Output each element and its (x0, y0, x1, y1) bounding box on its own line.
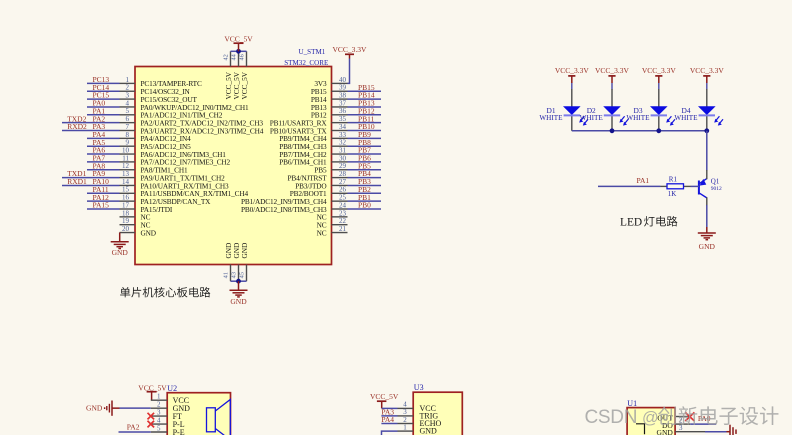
wire LED cathode bus (572, 130, 707, 132)
label D4 (674, 106, 698, 122)
node PA0 label (93, 99, 106, 108)
svg-text:PB0: PB0 (358, 201, 371, 210)
svg-text:NC: NC (317, 228, 327, 237)
svg-text:GND: GND (420, 427, 438, 435)
pin 36 PB12 (311, 107, 348, 119)
no-connect X (U2) (148, 413, 155, 420)
node PB13 label (358, 99, 375, 108)
power VCC_3.3V (LED D1) (555, 66, 590, 83)
wire PA4 to U3 ECHO (381, 423, 397, 425)
wire R1 to Q1 base (691, 185, 699, 187)
wire net PA8 (87, 169, 120, 171)
pin 30 PB6/TIM4_CH1 (279, 154, 347, 166)
svg-text:41: 41 (223, 272, 230, 278)
wire net PB14 (348, 98, 382, 100)
wire net PB13 (348, 106, 382, 108)
svg-text:RXD1: RXD1 (67, 177, 87, 186)
node PA3 label (67, 122, 105, 131)
node PC15 label (93, 91, 110, 100)
node PB10 label (358, 122, 375, 131)
svg-text:31: 31 (339, 146, 347, 154)
svg-text:4: 4 (157, 416, 161, 424)
node PB3 label (358, 177, 371, 186)
pin 16 PA12/USBDP/CAN_TX (120, 194, 212, 206)
pin 21 NC (317, 225, 348, 237)
node PA10 label (67, 177, 109, 186)
wire net PB2 (348, 192, 382, 194)
ground (U2 pin2, sideways) (86, 401, 119, 416)
svg-text:GND: GND (657, 428, 674, 435)
svg-text:R1: R1 (669, 175, 678, 183)
pin 19 NC (120, 217, 151, 229)
svg-text:@: @ (642, 409, 659, 427)
node PA2 label (67, 114, 105, 123)
svg-text:GND: GND (240, 243, 249, 259)
wire bus to Q1 emitter (706, 131, 708, 171)
pin 31 PB7/TIM4_CH2 (279, 146, 347, 158)
svg-text:28: 28 (339, 170, 347, 178)
wire net PA9 (62, 177, 120, 179)
junction LED bus (656, 128, 661, 133)
svg-text:WHITE: WHITE (580, 114, 604, 122)
pin 43 GND (bottom) (231, 243, 241, 282)
svg-text:P-E: P-E (173, 428, 185, 435)
svg-text:RXD2: RXD2 (67, 122, 87, 131)
no-connect X (U2) (148, 421, 155, 428)
pin 2 GND (U2) (151, 400, 190, 413)
pin 7 PA3/UART2_RX/ADC12_IN3/TIM2_CH4 (120, 123, 264, 135)
node PA9 label (67, 169, 105, 178)
junction bottom GND node (236, 279, 241, 284)
wire net PB8 (348, 145, 382, 147)
node PA0 label (698, 414, 711, 423)
wire PA2 to U2 (119, 431, 151, 433)
wire net PA6 (87, 153, 120, 155)
wire net PC14 (87, 90, 120, 92)
pin 3 PC15/OSC32_OUT (120, 92, 198, 104)
svg-text:37: 37 (339, 99, 347, 107)
pin 28 PB4/NJTRST (287, 170, 347, 182)
pin 44 VCC_5V (top) (231, 51, 241, 99)
pin 35 PB11/USART3_RX (270, 115, 348, 127)
pin 12 PA8/TIM1_CH1 (120, 162, 188, 174)
svg-text:17: 17 (122, 201, 130, 209)
wire VCC to D4 (706, 83, 708, 90)
svg-text:30: 30 (339, 154, 347, 162)
wire net PB7 (348, 153, 382, 155)
svg-text:3: 3 (157, 408, 161, 416)
pin 15 PA11/USBDM/CAN_RX/TIM1_CH4 (120, 186, 249, 198)
pin 41 GND (bottom) (223, 243, 233, 282)
svg-text:44: 44 (231, 53, 238, 60)
svg-text:34: 34 (339, 123, 347, 131)
svg-text:VCC_3.3V: VCC_3.3V (642, 66, 677, 75)
pin 14 PA10/UART1_RX/TIM1_CH3 (120, 178, 230, 190)
op-amp U1 body (627, 399, 675, 435)
svg-text:GND: GND (141, 228, 156, 237)
svg-text:PB0/ADC12_IN8/TIM3_CH3: PB0/ADC12_IN8/TIM3_CH3 (241, 205, 327, 214)
svg-text:VCC_3.3V: VCC_3.3V (333, 45, 368, 54)
svg-text:46: 46 (239, 54, 246, 60)
power VCC_3.3V (MCU) (333, 45, 368, 58)
wire net PA15 (87, 208, 120, 210)
pin 20 GND (120, 225, 156, 237)
wire VCC to D2 (611, 83, 613, 90)
ground (U1, sideways) (727, 425, 737, 435)
svg-text:10: 10 (122, 146, 130, 154)
pin 17 PA15/JTDI (120, 201, 173, 213)
svg-text:CSDN: CSDN (585, 407, 638, 428)
svg-text:29: 29 (339, 162, 347, 170)
svg-text:45: 45 (239, 272, 246, 278)
node PB12 label (358, 106, 375, 115)
svg-text:25: 25 (339, 194, 347, 202)
svg-text:PA1: PA1 (637, 176, 650, 185)
svg-text:26: 26 (339, 186, 347, 194)
junction LED bus (610, 128, 615, 133)
pin 8 PA4/ADC12_IN4 (120, 131, 192, 143)
svg-text:5: 5 (126, 107, 130, 115)
wire net PB3 (348, 184, 382, 186)
svg-text:PA15: PA15 (93, 201, 110, 210)
wire PA3 to U3 TRIG (381, 415, 397, 417)
node PA6 label (93, 146, 106, 155)
node PA1 label (93, 106, 106, 115)
pin 4 PA0/WKUP/ADC12_IN0/TIM2_CH1 (120, 99, 249, 111)
svg-text:GND: GND (86, 403, 103, 412)
svg-text:8: 8 (126, 131, 130, 139)
node PB5 label (358, 161, 371, 170)
wire net PA4 (87, 137, 120, 139)
svg-text:21: 21 (339, 225, 347, 233)
svg-text:STM32_CORE: STM32_CORE (284, 59, 328, 67)
node PA3 label (381, 408, 394, 417)
pin 1 PC13/TAMPER-RTC (120, 76, 202, 88)
node PB11 label (358, 114, 375, 123)
wire net PB0 (348, 208, 382, 210)
label LED circuit caption (620, 216, 677, 229)
svg-text:15: 15 (122, 186, 130, 194)
node PB6 label (358, 154, 371, 163)
node PB14 label (358, 91, 375, 100)
svg-text:11: 11 (122, 154, 129, 162)
power VCC_3.3V (LED D3) (642, 66, 677, 83)
svg-text:24: 24 (339, 201, 347, 209)
node PA5 label (93, 138, 106, 147)
wire VCC (U3 pin4) (382, 407, 398, 409)
node PB9 label (358, 130, 371, 139)
node PB15 label (358, 83, 375, 92)
op-amp U2 body (speaker module) (167, 384, 230, 435)
wire net PA1 (87, 114, 120, 116)
watermark CSDN (585, 406, 779, 428)
svg-text:VCC_5V: VCC_5V (370, 392, 399, 401)
pin 45 GND (bottom) (239, 243, 249, 282)
junction LED bus (704, 128, 709, 133)
svg-text:WHITE: WHITE (539, 114, 563, 122)
wire VCC_5V top bus (231, 50, 247, 52)
wire VCC to D3 (658, 83, 660, 90)
svg-text:42: 42 (223, 54, 230, 60)
pin 9 PA5/ADC12_IN5 (120, 139, 192, 151)
ground (Q1) (698, 227, 716, 251)
power VCC_5V (U3) (370, 392, 399, 408)
svg-text:1: 1 (157, 393, 161, 401)
svg-text:U2: U2 (167, 384, 177, 393)
label D3 (626, 106, 650, 122)
wire PA0 (U1) (690, 423, 716, 425)
node PA15 label (93, 201, 110, 210)
U1 pin names (657, 413, 674, 435)
svg-text:Q1: Q1 (711, 177, 720, 185)
svg-text:GND: GND (699, 242, 716, 251)
svg-text:3: 3 (126, 92, 130, 100)
pin 5 PA1/ADC12_IN1/TIM_CH2 (120, 107, 223, 119)
LED D4 WHITE (698, 89, 723, 131)
svg-text:GND: GND (112, 248, 129, 257)
svg-text:32: 32 (339, 139, 347, 147)
pin 2 PC14/OSC32_IN (120, 84, 191, 96)
pin 33 PB9/TIM4_CH4 (279, 131, 347, 143)
svg-text:VCC_3.3V: VCC_3.3V (555, 66, 590, 75)
pin 25 PB1/ADC12_IN9/TIM3_CH4 (241, 194, 348, 206)
pin 38 PB14 (311, 92, 348, 104)
wire net PB15 (348, 90, 382, 92)
svg-text:16: 16 (122, 194, 130, 202)
pin 5 P-E (U2) (151, 424, 185, 435)
pin 2 ECHO (U3) (398, 416, 442, 428)
pin 37 PB13 (311, 99, 348, 111)
svg-text:4: 4 (126, 99, 130, 107)
node PA1 label (637, 176, 650, 185)
wire net PB12 (348, 114, 382, 116)
svg-text:33: 33 (339, 131, 347, 139)
svg-text:23: 23 (339, 209, 347, 217)
svg-text:1: 1 (403, 423, 407, 431)
svg-text:39: 39 (339, 84, 347, 92)
wire net PB9 (348, 137, 382, 139)
svg-text:VCC_3.3V: VCC_3.3V (690, 66, 725, 75)
wire net PB5 (348, 169, 382, 171)
node PA8 label (93, 161, 106, 170)
svg-text:LED: LED (620, 217, 642, 229)
pin 10 PA6/ADC12_IN6/TIM3_CH1 (120, 146, 227, 158)
pin 39 PB15 (311, 84, 348, 96)
pin 22 NC (317, 217, 348, 229)
label Q1 (711, 177, 722, 192)
pin 32 PB8/TIM4_CH3 (279, 139, 347, 151)
svg-text:GND: GND (230, 297, 247, 306)
svg-text:VCC_5V: VCC_5V (240, 71, 249, 99)
svg-text:43: 43 (231, 272, 238, 278)
node PA12 label (93, 193, 110, 202)
speaker icon (U2) (207, 400, 231, 435)
pin 3 TRIG (U3) (398, 408, 439, 420)
pin 24 PB0/ADC12_IN8/TIM3_CH3 (241, 201, 348, 213)
power VCC_3.3V (LED D2) (595, 66, 630, 83)
svg-text:9: 9 (126, 139, 130, 147)
label D2 (580, 106, 604, 122)
pin 26 PB2/BOOT1 (290, 186, 348, 198)
svg-text:1K: 1K (668, 190, 677, 198)
node PA2 label (127, 423, 140, 432)
label D1 (539, 106, 563, 122)
svg-text:20: 20 (122, 225, 130, 233)
op-amp U_STM1 body (STM32 core board) (135, 48, 332, 264)
svg-text:PA2: PA2 (127, 423, 140, 432)
svg-text:6: 6 (126, 115, 130, 123)
svg-text:U3: U3 (414, 383, 424, 392)
node PA7 label (93, 154, 106, 163)
pin 40 3V3 (314, 76, 347, 88)
wire pin40 to VCC_3.3V (348, 59, 350, 84)
wire bottom GND bus (231, 280, 247, 282)
pin 27 PB3/JTDO (295, 178, 347, 190)
pin 1 GND (U3) (398, 423, 438, 435)
svg-text:18: 18 (122, 209, 130, 217)
node PC14 label (93, 83, 110, 92)
svg-text:7: 7 (126, 123, 130, 131)
node PA11 label (93, 185, 109, 194)
power VCC_3.3V (LED D4) (690, 66, 725, 83)
svg-text:5: 5 (157, 424, 161, 432)
pin 3 FT (U2) (151, 408, 182, 421)
label MCU caption (120, 287, 210, 298)
wire U3 GND (382, 431, 398, 435)
svg-text:PA4: PA4 (381, 415, 394, 424)
U1 internal graphic (636, 424, 645, 435)
wire net PA5 (87, 145, 120, 147)
transistor Q1 9012 (699, 170, 707, 206)
node PB7 label (358, 146, 371, 155)
ground (pin 20) (111, 233, 129, 257)
wire U1 to GND (705, 431, 727, 433)
node PB1 label (358, 193, 371, 202)
wire net PA7 (87, 161, 120, 163)
pin 42 VCC_5V (top) (223, 51, 233, 99)
pin 4 VCC (U3) (398, 401, 436, 413)
node PC13 label (93, 75, 110, 84)
power VCC_5V (MCU top) (224, 35, 253, 52)
wire net PB6 (348, 161, 382, 163)
wire net PA12 (87, 200, 120, 202)
wire net PA3 (62, 130, 120, 132)
wire net PA10 (62, 184, 120, 186)
LED D3 WHITE (650, 89, 675, 131)
pin 6 PA2/UART2_TX/ADC12_IN2/TIM2_CH3 (120, 115, 264, 127)
wire PA1 to R1 (598, 185, 661, 187)
wire VCC to D1 (571, 83, 573, 90)
node PB8 label (358, 138, 371, 147)
svg-text:14: 14 (122, 178, 130, 186)
node PB0 label (358, 201, 371, 210)
svg-text:9012: 9012 (711, 186, 722, 192)
svg-text:WHITE: WHITE (626, 114, 650, 122)
node PA4 label (93, 130, 106, 139)
pin 34 PB10/USART3_TX (270, 123, 348, 135)
node PA4 label (381, 415, 394, 424)
wire Q1 collector to GND (706, 205, 708, 227)
wire net PC13 (87, 82, 120, 84)
pin 29 PB5 (314, 162, 347, 174)
pin 4 P-L (U2) (151, 416, 185, 429)
svg-text:40: 40 (339, 76, 347, 84)
pin 1 VCC (U2) (151, 393, 189, 406)
pin 11 PA7/ADC12_IN7/TIME3_CH2 (120, 154, 231, 166)
pin 3 (U1) (675, 424, 705, 432)
svg-text:38: 38 (339, 92, 347, 100)
wire net PB10 (348, 130, 382, 132)
pin 2 (U1) (675, 416, 690, 424)
node PB2 label (358, 185, 371, 194)
pin 46 VCC_5V (top) (239, 51, 249, 99)
wire U2 GND (120, 407, 151, 409)
wire net PB1 (348, 200, 382, 202)
wire net PB4 (348, 177, 382, 179)
pin 23 NC (317, 209, 348, 221)
wire net PC15 (87, 98, 120, 100)
svg-text:2: 2 (126, 84, 130, 92)
pin 18 NC (120, 209, 151, 221)
junction top VCC node (236, 49, 241, 54)
svg-text:12: 12 (122, 162, 130, 170)
wire net PB11 (348, 122, 382, 124)
svg-text:1: 1 (126, 76, 130, 84)
op-amp U3 body (ultrasonic module) (413, 383, 462, 435)
no-connect X (U1) (685, 412, 694, 421)
node PB4 label (358, 169, 371, 178)
svg-text:U_STM1: U_STM1 (299, 48, 326, 56)
svg-text:3: 3 (679, 424, 683, 432)
svg-text:VCC_3.3V: VCC_3.3V (595, 66, 630, 75)
pin 13 PA9/UART1_TX/TIM1_CH2 (120, 170, 226, 182)
power VCC_5V (U2) (138, 383, 167, 400)
resistor R1 1K (661, 175, 691, 197)
ground (MCU bottom) (230, 281, 248, 306)
LED D2 WHITE (603, 89, 628, 131)
svg-text:VCC_5V: VCC_5V (224, 35, 253, 44)
svg-text:19: 19 (122, 217, 130, 225)
wire net PA2 (62, 122, 120, 124)
LED D1 WHITE (563, 89, 588, 131)
svg-text:22: 22 (339, 217, 347, 225)
svg-text:2: 2 (157, 400, 161, 408)
wire net PA0 (87, 106, 120, 108)
wire net PA11 (87, 192, 120, 194)
svg-text:WHITE: WHITE (674, 114, 698, 122)
svg-text:35: 35 (339, 115, 347, 123)
pin 1 (U1) (675, 416, 690, 418)
svg-text:36: 36 (339, 107, 347, 115)
svg-text:27: 27 (339, 178, 347, 186)
svg-text:13: 13 (122, 170, 130, 178)
